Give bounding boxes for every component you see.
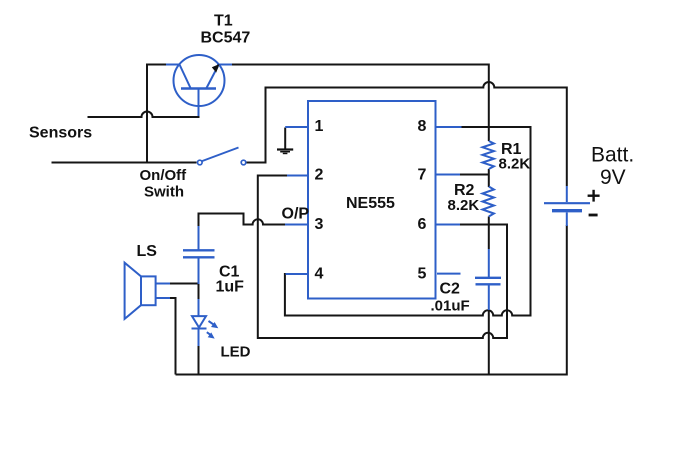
wire sensor input to transistor base (hop over vertical at x=147)	[88, 112, 200, 118]
svg-text:8.2K: 8.2K	[499, 156, 531, 173]
svg-text:6: 6	[418, 216, 427, 233]
svg-text:2: 2	[315, 167, 324, 184]
svg-text:BC547: BC547	[201, 30, 251, 47]
svg-text:Batt.: Batt.	[591, 144, 634, 167]
loudspeaker LS	[125, 263, 170, 319]
wire pin7 to R1/R2 junction	[436, 174, 489, 176]
svg-text:3: 3	[315, 216, 324, 233]
ground	[277, 148, 293, 154]
wire pin1 to ground	[284, 128, 286, 149]
svg-text:8: 8	[418, 118, 427, 135]
wire switch right terminal up and across to battery (hop over x=488.8)	[247, 82, 567, 186]
svg-text:.01uF: .01uF	[431, 298, 470, 315]
svg-text:7: 7	[418, 167, 427, 184]
svg-text:9V: 9V	[600, 166, 626, 189]
svg-text:5: 5	[418, 266, 427, 283]
svg-text:8.2K: 8.2K	[448, 197, 480, 214]
svg-text:LS: LS	[137, 243, 158, 260]
pin 5 stub (unconnected)	[437, 273, 461, 275]
battery minus sign	[589, 214, 598, 217]
transistor emitter arrowhead	[212, 64, 220, 73]
svg-text:Swith: Swith	[144, 184, 184, 201]
svg-text:Sensors: Sensors	[29, 125, 92, 142]
resistor R1	[483, 141, 494, 169]
wire top-left corner to emitter-left / down to switch line	[147, 65, 170, 163]
svg-text:4: 4	[315, 266, 324, 283]
capacitor C1	[183, 226, 215, 284]
svg-text:C2: C2	[440, 281, 461, 298]
transistor Q1 BC547	[166, 55, 232, 116]
wire pin4 loop around bottom up to pin8 (hops over x=488, x=507)	[285, 127, 531, 316]
resistor R2	[483, 187, 494, 217]
svg-text:1: 1	[315, 118, 324, 135]
node: blue pin stubs of IC	[285, 127, 462, 274]
svg-text:O/P: O/P	[282, 206, 310, 223]
svg-text:1uF: 1uF	[216, 279, 245, 296]
wire A collector to R1 top vertical	[231, 65, 489, 128]
svg-text:LED: LED	[221, 344, 251, 361]
wire speaker bottom terminal down to rail corner	[168, 298, 176, 375]
svg-text:NE555: NE555	[346, 195, 395, 212]
svg-text:T1: T1	[214, 13, 233, 30]
wire R1 chain verticals	[488, 127, 490, 375]
wire LED cathode to ground rail	[198, 345, 200, 375]
battery plus sign	[588, 190, 600, 202]
wire short black segment below C1/speaker junction	[198, 284, 200, 299]
LED D1	[192, 299, 215, 346]
capacitor C2	[475, 249, 501, 310]
battery B1 9V	[544, 186, 590, 226]
svg-text:On/Off: On/Off	[140, 167, 188, 184]
wire O/P pin3 to C1 top (hop over x=257.8)	[199, 214, 309, 229]
wire speaker top terminal to C1 bottom junction	[168, 283, 199, 285]
switch S1 On/Off	[198, 148, 246, 165]
LED arrowheads	[208, 322, 219, 339]
wire pin2 down, bottom run to pin6 vertical (hop over x=488)	[258, 176, 507, 339]
wire switch feed from left	[52, 162, 197, 164]
wire ground rail to battery minus	[176, 225, 567, 375]
op-amp U1 NE555 IC body	[308, 101, 436, 299]
